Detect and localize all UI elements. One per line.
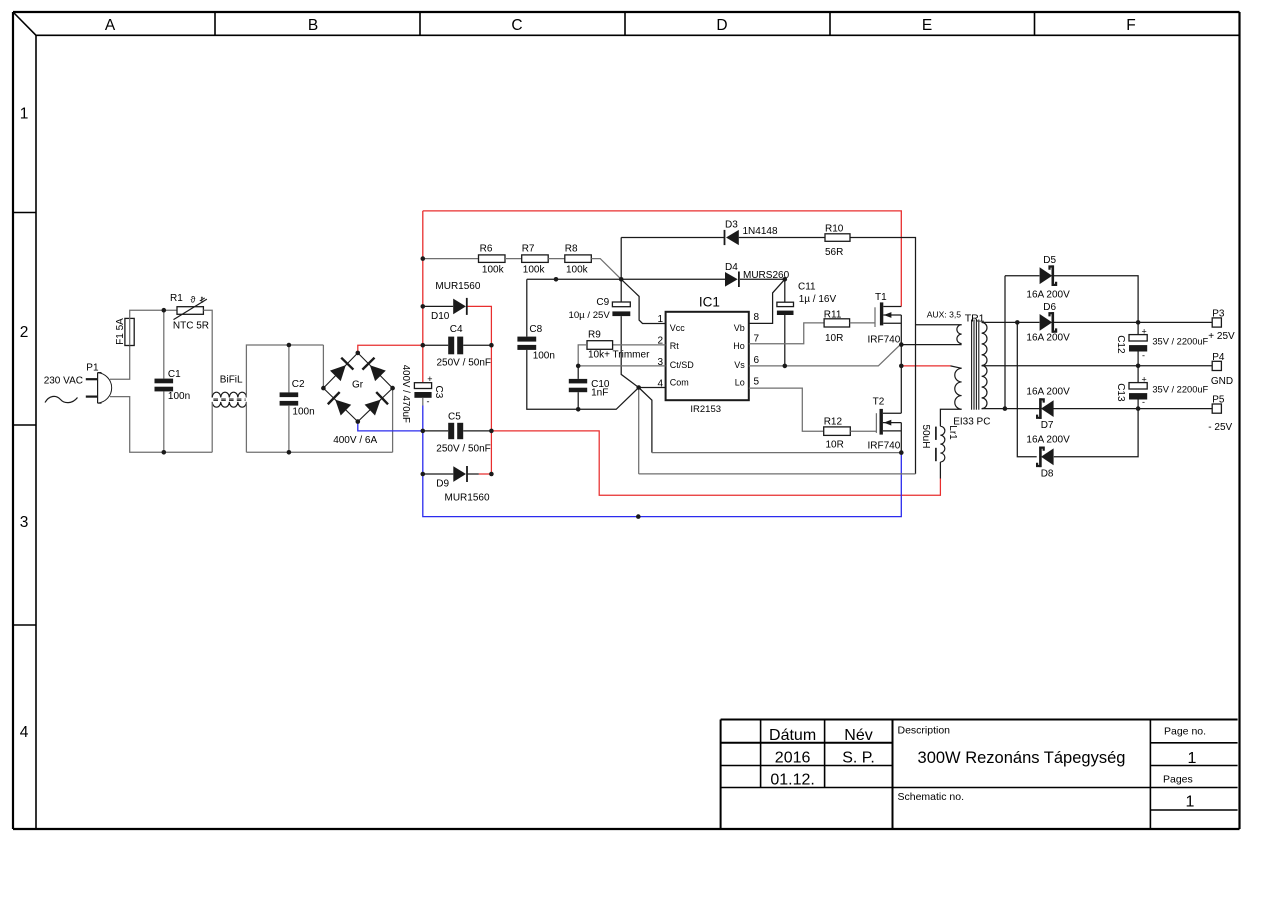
svg-text:P1: P1	[86, 363, 99, 374]
svg-text:S. P.: S. P.	[842, 749, 875, 766]
svg-text:C: C	[511, 17, 522, 34]
svg-text:MUR1560: MUR1560	[435, 281, 480, 292]
svg-text:Ct/SD: Ct/SD	[670, 360, 695, 370]
svg-text:+: +	[1142, 374, 1147, 384]
svg-text:B: B	[308, 17, 318, 34]
svg-text:C4: C4	[450, 324, 463, 335]
svg-text:C11: C11	[798, 282, 816, 293]
svg-text:2016: 2016	[775, 749, 811, 766]
svg-text:C2: C2	[292, 379, 305, 390]
svg-text:3: 3	[20, 514, 29, 531]
svg-text:Description: Description	[898, 725, 951, 737]
svg-text:-: -	[1142, 397, 1145, 407]
svg-text:C1: C1	[168, 369, 181, 380]
svg-text:C12: C12	[1115, 335, 1126, 354]
svg-text:Lr1: Lr1	[947, 425, 958, 440]
svg-text:D5: D5	[1043, 255, 1056, 266]
svg-text:Com: Com	[670, 378, 689, 388]
svg-text:-: -	[1142, 351, 1145, 361]
svg-text:Schematic no.: Schematic no.	[898, 791, 965, 803]
svg-text:R6: R6	[480, 243, 493, 254]
svg-text:C3: C3	[433, 386, 444, 399]
svg-text:P5: P5	[1212, 394, 1225, 405]
svg-text:R11: R11	[824, 310, 842, 321]
svg-text:1µ / 16V: 1µ / 16V	[799, 294, 837, 305]
svg-text:4: 4	[20, 724, 29, 741]
svg-text:R12: R12	[824, 416, 843, 427]
svg-text:P4: P4	[1212, 352, 1225, 363]
svg-text:100k: 100k	[482, 264, 505, 275]
svg-text:1N4148: 1N4148	[743, 226, 778, 237]
svg-text:Dátum: Dátum	[769, 727, 816, 744]
svg-text:+ 25V: + 25V	[1208, 331, 1235, 342]
svg-text:+: +	[427, 374, 432, 384]
svg-text:16A 200V: 16A 200V	[1026, 435, 1070, 446]
svg-text:100k: 100k	[523, 264, 546, 275]
svg-text:IR2153: IR2153	[690, 404, 721, 415]
svg-text:01.12.: 01.12.	[770, 771, 814, 788]
svg-text:10R: 10R	[825, 333, 843, 344]
svg-text:10R: 10R	[826, 440, 844, 451]
svg-text:D9: D9	[436, 478, 449, 489]
svg-text:Gr: Gr	[352, 379, 364, 390]
svg-text:NTC 5R: NTC 5R	[173, 320, 209, 331]
svg-text:5: 5	[754, 377, 760, 388]
svg-text:16A 200V: 16A 200V	[1026, 289, 1070, 300]
svg-text:Page no.: Page no.	[1164, 726, 1206, 738]
svg-text:1: 1	[657, 314, 663, 325]
svg-text:F1 5A: F1 5A	[115, 318, 126, 345]
svg-text:-: -	[427, 396, 430, 406]
svg-text:1: 1	[1186, 794, 1195, 811]
svg-text:R1: R1	[170, 293, 183, 304]
svg-text:50uH: 50uH	[920, 425, 931, 449]
svg-text:Név: Név	[844, 727, 872, 744]
svg-text:D3: D3	[725, 220, 738, 231]
svg-text:C9: C9	[596, 297, 609, 308]
svg-text:8: 8	[754, 312, 760, 323]
svg-text:300W Rezonáns Tápegység: 300W Rezonáns Tápegység	[918, 749, 1126, 767]
svg-text:230 VAC: 230 VAC	[44, 375, 83, 386]
svg-text:R7: R7	[522, 243, 535, 254]
svg-text:D4: D4	[725, 262, 738, 273]
svg-text:C5: C5	[448, 412, 461, 423]
svg-text:2: 2	[20, 324, 29, 341]
svg-text:400V / 6A: 400V / 6A	[333, 435, 377, 446]
svg-text:R8: R8	[565, 243, 578, 254]
svg-text:R9: R9	[588, 330, 601, 341]
svg-text:100n: 100n	[168, 391, 190, 402]
svg-text:35V / 2200uF: 35V / 2200uF	[1152, 384, 1208, 394]
svg-text:ϑ: ϑ	[191, 294, 196, 304]
svg-text:IC1: IC1	[699, 295, 720, 310]
svg-text:Vb: Vb	[734, 323, 745, 333]
svg-text:6: 6	[754, 355, 760, 366]
svg-text:A: A	[105, 17, 116, 34]
svg-text:Vcc: Vcc	[670, 323, 686, 333]
svg-text:D10: D10	[431, 311, 450, 322]
svg-text:Lo: Lo	[735, 378, 745, 388]
svg-text:D6: D6	[1043, 302, 1056, 313]
svg-text:D8: D8	[1041, 468, 1054, 479]
svg-text:56R: 56R	[825, 247, 843, 258]
svg-text:10µ / 25V: 10µ / 25V	[569, 310, 611, 321]
svg-text:Ho: Ho	[733, 341, 745, 351]
svg-text:250V / 50nF: 250V / 50nF	[436, 443, 490, 454]
svg-text:Rt: Rt	[670, 341, 679, 351]
svg-text:250V / 50nF: 250V / 50nF	[437, 357, 491, 368]
svg-text:100n: 100n	[533, 351, 555, 362]
svg-text:10k+ Trimmer: 10k+ Trimmer	[588, 350, 650, 361]
svg-text:100n: 100n	[292, 407, 314, 418]
svg-text:1: 1	[20, 106, 29, 123]
svg-text:T1: T1	[875, 292, 887, 303]
svg-text:C13: C13	[1115, 383, 1126, 402]
svg-text:C8: C8	[529, 324, 542, 335]
svg-text:- 25V: - 25V	[1208, 422, 1232, 433]
svg-text:E: E	[922, 17, 932, 34]
svg-text:IRF740: IRF740	[868, 335, 901, 346]
svg-text:400V / 470uF: 400V / 470uF	[400, 365, 411, 423]
svg-text:35V / 2200uF: 35V / 2200uF	[1152, 336, 1208, 346]
svg-text:F: F	[1126, 17, 1135, 34]
svg-text:T2: T2	[873, 397, 885, 408]
svg-text:1nF: 1nF	[591, 388, 608, 399]
svg-text:100k: 100k	[566, 264, 589, 275]
svg-text:16A 200V: 16A 200V	[1026, 386, 1070, 397]
svg-text:P3: P3	[1212, 309, 1225, 320]
svg-text:+: +	[1142, 326, 1147, 336]
svg-text:IRF740: IRF740	[868, 440, 901, 451]
svg-text:Vs: Vs	[734, 360, 745, 370]
svg-text:D: D	[716, 17, 727, 34]
svg-text:16A 200V: 16A 200V	[1026, 332, 1070, 343]
svg-text:Pages: Pages	[1163, 774, 1193, 786]
svg-text:AUX: 3,5: AUX: 3,5	[927, 310, 962, 320]
svg-text:GND: GND	[1211, 376, 1233, 387]
svg-text:EI33 PC: EI33 PC	[953, 417, 990, 428]
svg-text:R10: R10	[825, 223, 844, 234]
svg-text:D7: D7	[1041, 420, 1054, 431]
svg-text:7: 7	[754, 334, 760, 345]
svg-text:MUR1560: MUR1560	[445, 493, 490, 504]
svg-text:BiFiL: BiFiL	[220, 375, 243, 386]
svg-text:1: 1	[1188, 750, 1197, 767]
